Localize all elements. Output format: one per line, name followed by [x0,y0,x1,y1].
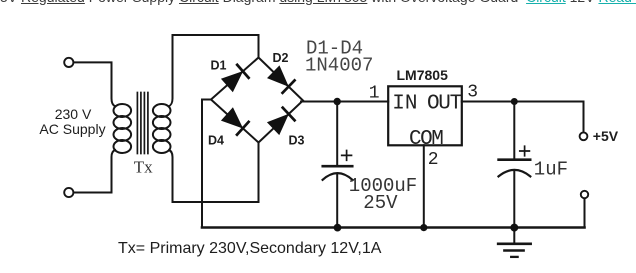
svg-text:Tx= Primary 230V,Secondary 12V: Tx= Primary 230V,Secondary 12V,1A [118,240,382,257]
svg-text:25V: 25V [363,192,398,214]
svg-text:D3: D3 [289,134,305,148]
svg-text:LM7805: LM7805 [397,67,449,83]
svg-text:D1: D1 [211,58,227,72]
svg-text:IN: IN [392,93,417,116]
svg-text:230 V: 230 V [55,106,92,122]
svg-text:+5V: +5V [593,128,619,144]
svg-text:Tx: Tx [134,158,153,177]
svg-text:1: 1 [369,84,380,104]
svg-text:AC Supply: AC Supply [39,121,105,137]
svg-text:D4: D4 [208,134,224,148]
svg-text:1N4007: 1N4007 [305,55,373,77]
svg-text:OUT: OUT [427,93,462,116]
svg-text:1uF: 1uF [534,159,568,181]
svg-text:D2: D2 [273,51,289,65]
svg-text:2: 2 [428,150,439,170]
svg-text:3: 3 [467,83,478,103]
svg-text:COM: COM [409,128,443,151]
